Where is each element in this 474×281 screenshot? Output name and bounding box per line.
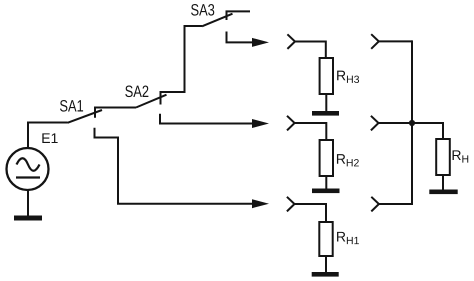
SA1 lower contact and wire to row-3 arrow [95, 128, 262, 204]
ground RH2 [312, 189, 340, 194]
wire row3 right to bus [379, 203, 413, 205]
row-1 arrow wire [227, 32, 262, 43]
bus vertical wire [411, 40, 413, 204]
wire E1 top to SA1 pole [28, 123, 68, 149]
arrowhead row 2 [252, 119, 269, 128]
wire E1 bottom to ground [27, 190, 29, 216]
switch SA3 lever [202, 14, 233, 27]
wire row2 left to RH2 [295, 123, 327, 140]
switch SA2 lever [136, 95, 167, 108]
arrowhead row 3 [252, 199, 269, 208]
label E1 [42, 133, 57, 143]
resistor RH2 [320, 140, 333, 176]
label RH2 [337, 154, 359, 166]
resistor RH [436, 139, 450, 175]
SA2 lower contact and row-2 arrow wire [160, 114, 261, 124]
wire RH2 to ground [325, 176, 327, 189]
connector jack row1 left [287, 34, 295, 49]
label SA2 [125, 85, 148, 97]
wire row1 left to RH3 [295, 42, 326, 59]
label SA3 [191, 4, 214, 16]
wire row2 right through node to RH [379, 123, 444, 139]
SA2 upper contact and wire up to SA3 pole [161, 26, 203, 105]
label SA1 [60, 100, 83, 112]
resistor RH1 [319, 222, 332, 256]
connector jack row1 right [371, 34, 379, 49]
connector jack row3 right [371, 197, 379, 212]
junction node [409, 120, 415, 126]
arrowhead row 1 [252, 38, 269, 47]
wire RH3 to ground [325, 94, 327, 111]
label RH [453, 150, 469, 162]
ground RH3 [312, 111, 339, 116]
connector jack row2 left [287, 116, 295, 131]
ground RH1 [312, 272, 339, 277]
ground RH [429, 190, 457, 195]
SA3 closed contact stub [227, 11, 251, 20]
connector jack row2 right [371, 116, 379, 131]
wire RH1 to ground [325, 256, 327, 272]
AC source E1 [7, 148, 49, 190]
label RH1 [337, 232, 359, 244]
connector jack row3 left [287, 197, 295, 212]
wire row1 right to bus [379, 40, 412, 42]
ground E1 [14, 216, 42, 221]
SA1 upper contact and wire to SA2 pole [95, 108, 136, 118]
resistor RH3 [320, 58, 333, 94]
switch SA1 lever [68, 110, 103, 123]
wire row3 left to RH1 [295, 204, 327, 222]
label RH3 [337, 71, 359, 83]
wire RH to ground [442, 175, 444, 190]
